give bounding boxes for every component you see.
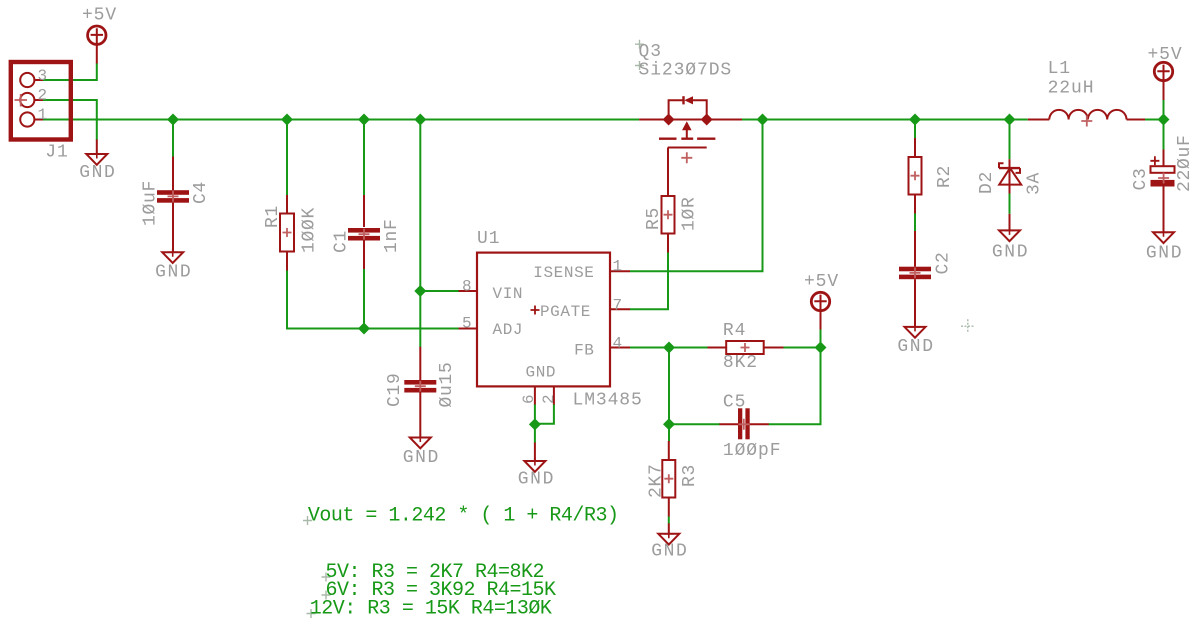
power +5V (top left) [88, 26, 106, 64]
origin cross (Q3 value) [635, 61, 644, 70]
node VIN/rail [414, 114, 426, 126]
svg-text:6: 6 [520, 392, 538, 404]
origin cross (D2 ground symbol) [1005, 227, 1015, 235]
svg-text:8: 8 [462, 278, 474, 296]
node C1/rail [358, 114, 370, 126]
origin cross (U1 ground symbol) [530, 458, 540, 466]
svg-text:J1: J1 [45, 143, 68, 163]
svg-text:GND: GND [518, 470, 555, 490]
origin cross (5V note) [322, 573, 331, 582]
svg-text:VIN: VIN [493, 285, 524, 303]
capacitor C19 [404, 347, 436, 438]
wire J1 pin3 to +5V [43, 63, 97, 80]
ground GND (C4) [162, 252, 183, 263]
svg-text:GND: GND [79, 163, 116, 183]
svg-text:GND: GND [651, 542, 688, 562]
resistor R1 [280, 195, 294, 271]
svg-text:ADJ: ADJ [493, 321, 524, 339]
node ADJ/C1 [358, 323, 370, 335]
wire +5V mid to R4 node [820, 329, 822, 348]
ground GND (U1) [524, 443, 545, 472]
origin cross (6V note) [322, 591, 331, 600]
wire ADJ line [287, 270, 459, 329]
connector J1 [11, 62, 71, 140]
svg-text:1ØuF: 1ØuF [141, 180, 161, 226]
wire main +5V input rail [43, 119, 639, 121]
ground GND (R3) [658, 523, 679, 544]
node VIN pin8 [414, 285, 426, 297]
node R1/rail [281, 114, 293, 126]
origin cross (Q3 name) [635, 40, 644, 49]
svg-text:D2: D2 [977, 171, 997, 194]
node D2/rail [1004, 114, 1016, 126]
svg-text:2K7: 2K7 [647, 463, 667, 498]
svg-text:C5: C5 [723, 393, 746, 413]
wire R4 right to +5V node [783, 329, 821, 348]
svg-text:ISENSE: ISENSE [533, 264, 594, 282]
wire C1 drop [363, 120, 365, 196]
resistor R2 [909, 138, 922, 214]
wire +5V node down to C5 right [768, 348, 820, 425]
power +5V (mid, FB divider) [811, 292, 829, 329]
svg-text:+5V: +5V [804, 272, 839, 292]
wire D2 top [1009, 120, 1011, 160]
svg-text:LM3485: LM3485 [573, 390, 643, 410]
svg-text:GND: GND [526, 363, 557, 381]
capacitor C1 [348, 195, 380, 269]
ground GND (C19) [410, 438, 431, 449]
wire R1 drop [286, 120, 288, 196]
node FB [663, 342, 675, 354]
svg-text:1: 1 [38, 106, 50, 124]
svg-text:C19: C19 [385, 372, 405, 407]
resistor R4 [708, 341, 784, 354]
svg-text:5: 5 [462, 315, 474, 333]
origin cross (Vout note) [303, 516, 312, 525]
svg-text:PGATE: PGATE [540, 303, 591, 321]
svg-text:GND: GND [992, 243, 1029, 263]
origin cross (C19 ground symbol) [415, 434, 425, 442]
stray origin cross [961, 319, 975, 333]
resistor R3 [662, 441, 675, 517]
svg-text:1nF: 1nF [382, 218, 402, 253]
wire R2 bottom to C2 [914, 213, 916, 231]
ground GND (D2) [999, 214, 1020, 241]
svg-text:2: 2 [38, 87, 50, 105]
origin cross (J1 ground symbol) [92, 151, 102, 159]
svg-text:C1: C1 [332, 230, 352, 253]
ground GND (J1 pin2) [86, 140, 107, 165]
svg-text:R3: R3 [680, 464, 700, 487]
svg-text:Øu15: Øu15 [437, 361, 457, 407]
wire VIN vertical [419, 120, 421, 348]
wire ISENSE net [630, 120, 763, 272]
svg-text:1ØØK: 1ØØK [300, 207, 320, 253]
svg-text:GND: GND [403, 448, 440, 468]
node R2/rail [909, 114, 921, 126]
svg-text:R2: R2 [935, 165, 955, 188]
capacitor C5 [720, 408, 769, 439]
diode D2 schottky [999, 159, 1021, 193]
svg-text:22ØuF: 22ØuF [1175, 134, 1195, 192]
wire output node to C3 [1163, 120, 1165, 151]
svg-text:2: 2 [540, 392, 558, 404]
transistor Q3 Si2307DS [639, 96, 742, 196]
svg-text:Si23Ø7DS: Si23Ø7DS [639, 60, 733, 80]
svg-text:1ØØpF: 1ØØpF [723, 441, 782, 461]
svg-text:U1: U1 [477, 229, 500, 249]
IC U1 LM3485 [459, 253, 631, 405]
svg-text:C2: C2 [934, 251, 954, 274]
svg-text:3A: 3A [1025, 172, 1045, 195]
svg-text:Vout = 1.242 * ( 1 + R4/R3): Vout = 1.242 * ( 1 + R4/R3) [308, 505, 619, 528]
wire C1 bottom [363, 269, 365, 329]
power +5V (output) [1154, 62, 1172, 100]
node ISENSE/rail [757, 114, 769, 126]
wire U1 GND pins join [534, 404, 536, 443]
origin cross (C4 ground symbol) [168, 249, 178, 257]
origin cross (R3 ground symbol) [664, 530, 674, 538]
svg-text:3: 3 [38, 67, 50, 85]
wire D2 bottom to GND [1009, 194, 1011, 214]
svg-text:22uH: 22uH [1048, 78, 1095, 98]
wire C4 drop [172, 120, 174, 158]
svg-text:L1: L1 [1048, 59, 1071, 79]
ground GND (C2) [905, 327, 926, 338]
svg-text:1ØR: 1ØR [680, 196, 700, 231]
svg-text:R5: R5 [644, 207, 664, 230]
node output/rail [1158, 114, 1170, 126]
wire output +5V drop [1163, 100, 1165, 120]
wire FB down to C5 [669, 348, 720, 425]
svg-text:GND: GND [155, 263, 192, 283]
wire switch node rail (Q3 drain to L1) [742, 119, 1028, 121]
svg-text:GND: GND [897, 337, 934, 357]
svg-text:FB: FB [574, 342, 594, 360]
wire R3 top [668, 424, 670, 441]
svg-text:R1: R1 [263, 205, 283, 228]
capacitor C4 [157, 157, 189, 253]
origin cross (C2 ground symbol) [910, 323, 920, 331]
svg-text:8K2: 8K2 [723, 353, 758, 373]
svg-text:Q3: Q3 [639, 42, 662, 62]
svg-text:C4: C4 [191, 181, 211, 204]
resistor R5 [662, 196, 675, 253]
svg-text:12V: R3 = 15K R4=13ØK: 12V: R3 = 15K R4=13ØK [310, 598, 552, 621]
origin cross (12V note) [307, 609, 316, 618]
svg-text:C3: C3 [1131, 167, 1151, 190]
node R4/+5V [815, 342, 827, 354]
wire PGATE to R5 [630, 252, 668, 309]
wire R3 bottom [668, 516, 670, 523]
ground GND (C3) [1153, 232, 1174, 243]
node C5/R3 [663, 418, 675, 430]
inductor L1 [1028, 110, 1145, 127]
svg-text:+5V: +5V [82, 6, 117, 26]
capacitor C3 (polarized) [1150, 150, 1174, 233]
wire L1 to output node [1127, 119, 1164, 121]
svg-text:R4: R4 [723, 321, 746, 341]
node U1 GND join [529, 418, 541, 430]
svg-text:1: 1 [613, 258, 625, 276]
wire R2 top [914, 120, 916, 139]
svg-text:7: 7 [613, 297, 625, 315]
svg-text:+5V: +5V [1147, 45, 1182, 65]
origin cross (C3 ground symbol) [1159, 229, 1169, 237]
wire J1 pin2 to GND [43, 100, 97, 140]
wire FB to R4 [630, 347, 708, 349]
wire VIN to pin 8 [420, 290, 458, 292]
capacitor C2 [899, 231, 931, 327]
svg-text:4: 4 [613, 334, 625, 352]
node C4/rail [167, 114, 179, 126]
svg-text:GND: GND [1146, 244, 1183, 264]
